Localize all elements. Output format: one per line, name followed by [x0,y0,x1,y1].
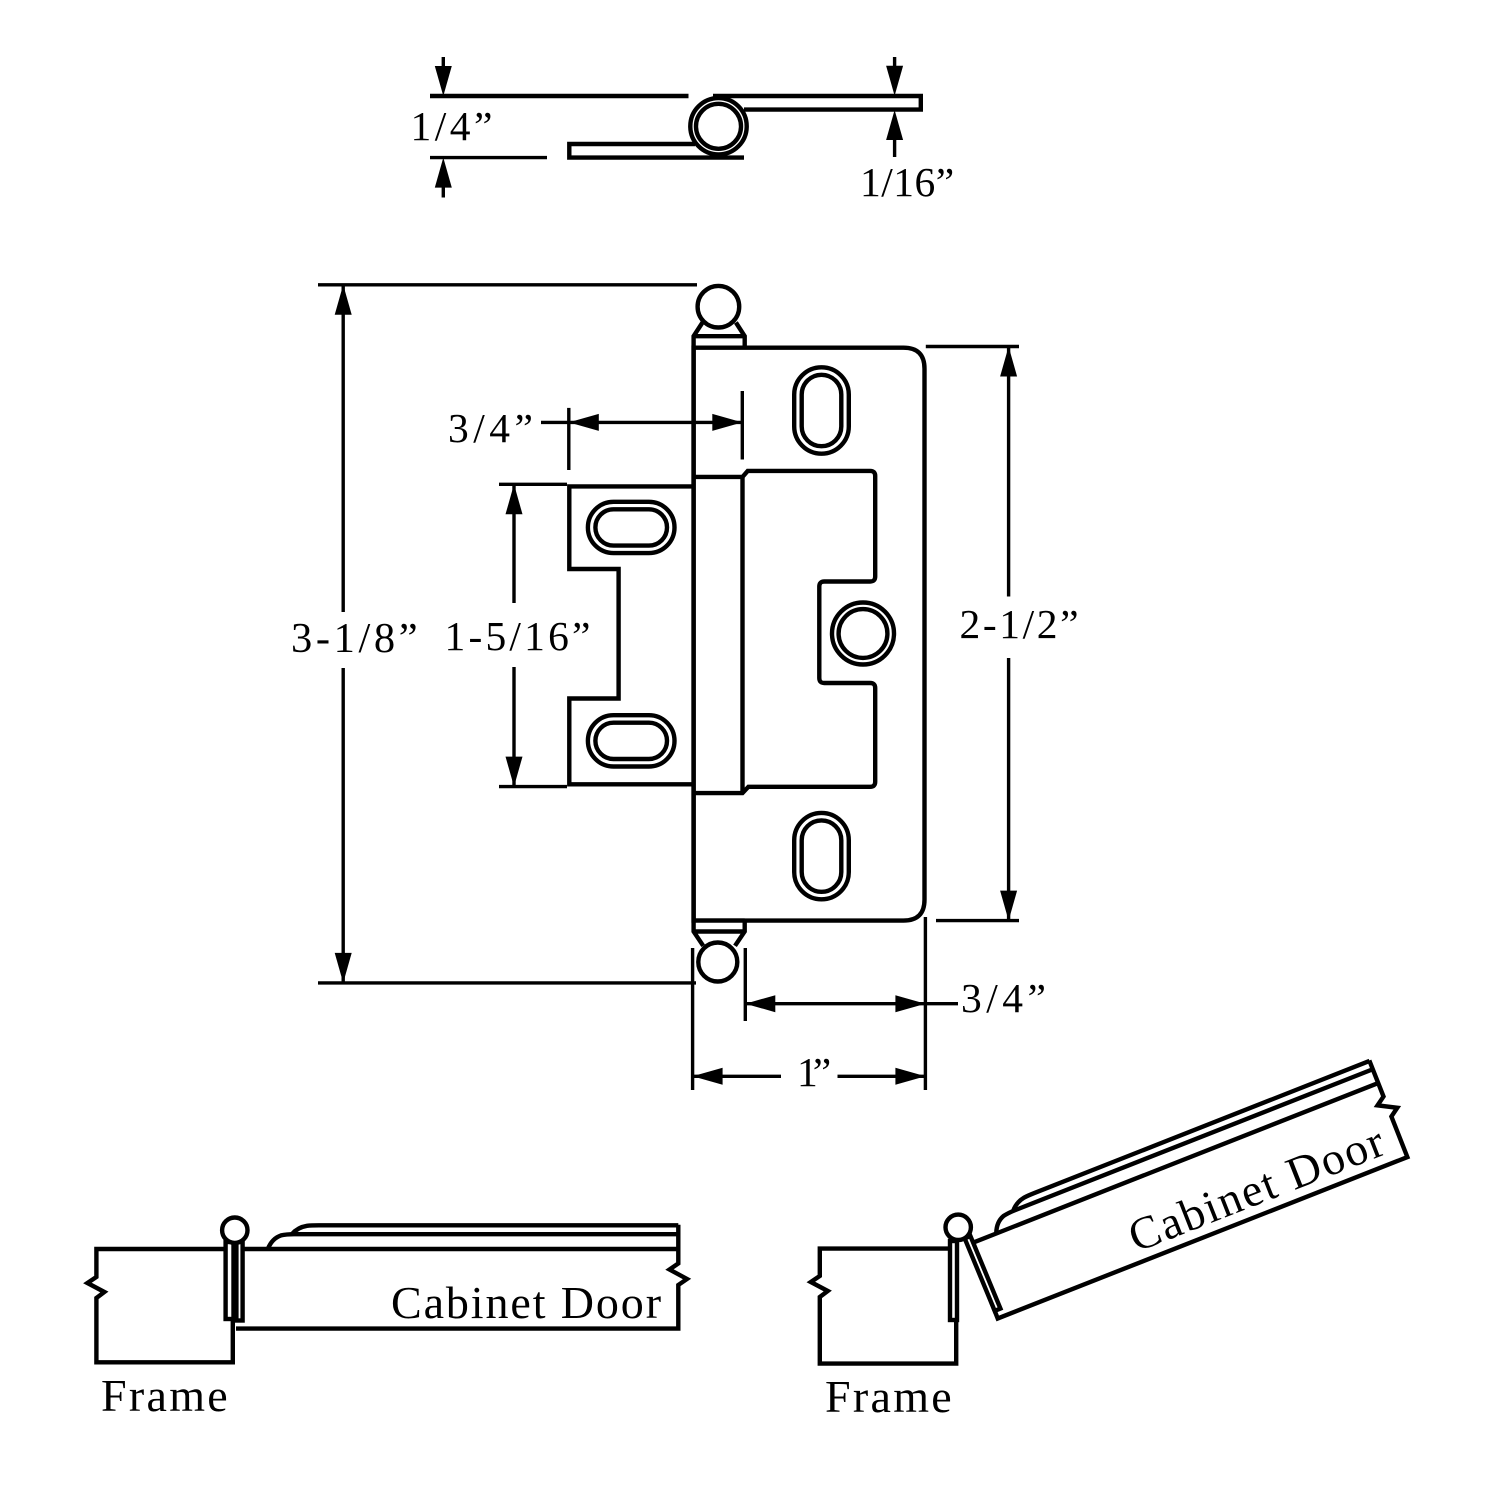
svg-text:3-1/8”: 3-1/8” [291,615,421,662]
svg-text:3/4”: 3/4” [448,405,537,451]
svg-text:1/4”: 1/4” [411,103,496,149]
svg-text:1”: 1” [797,1049,830,1095]
svg-text:2-1/2”: 2-1/2” [960,601,1082,647]
svg-text:3/4”: 3/4” [961,975,1050,1021]
svg-text:1-5/16”: 1-5/16” [445,613,594,659]
svg-text:1/16”: 1/16” [860,159,955,205]
svg-text:Frame: Frame [101,1370,230,1421]
svg-text:Frame: Frame [825,1371,954,1422]
svg-text:Cabinet Door: Cabinet Door [391,1277,663,1328]
